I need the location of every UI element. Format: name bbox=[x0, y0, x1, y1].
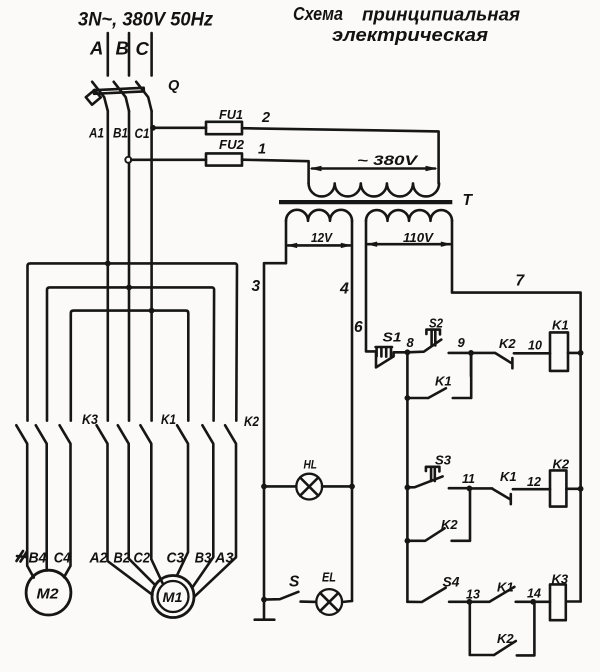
coil K1 bbox=[550, 332, 568, 371]
svg-text:7: 7 bbox=[516, 273, 526, 290]
thermal contact S1 bbox=[376, 331, 408, 368]
svg-text:4: 4 bbox=[339, 281, 349, 298]
lamp EL bbox=[301, 571, 343, 615]
contact K1 NC (row 2) bbox=[469, 469, 550, 504]
svg-text:S4: S4 bbox=[443, 575, 461, 590]
node bus A bbox=[105, 261, 111, 267]
switch Q blade pole C bbox=[136, 82, 151, 111]
wire node9 down bbox=[470, 353, 473, 376]
node bus B bbox=[126, 285, 132, 291]
svg-text:K2: K2 bbox=[553, 457, 570, 472]
transformer T primary winding bbox=[309, 183, 440, 196]
wire node 14 to coil K3 bbox=[533, 600, 550, 603]
svg-text:3: 3 bbox=[252, 278, 261, 295]
switch S4 bbox=[407, 575, 460, 603]
contact K2 NC (row 1) bbox=[471, 336, 550, 368]
svg-text:11: 11 bbox=[462, 472, 475, 486]
fuse FU2 bbox=[206, 153, 242, 165]
svg-text:B2: B2 bbox=[114, 550, 131, 567]
node 13 bbox=[467, 599, 473, 605]
wire to node 11 bbox=[449, 487, 470, 490]
svg-text:C1: C1 bbox=[135, 126, 150, 141]
svg-text:K2: K2 bbox=[244, 414, 259, 429]
svg-text:K2: K2 bbox=[499, 336, 516, 351]
motor M2 bbox=[26, 570, 71, 615]
pushbutton S2 bbox=[407, 317, 443, 353]
svg-text:FU1: FU1 bbox=[219, 107, 243, 122]
svg-text:K1: K1 bbox=[435, 374, 452, 389]
svg-text:A1: A1 bbox=[88, 126, 104, 141]
contact K2 holding (row 3) bbox=[470, 602, 535, 656]
svg-text:A3: A3 bbox=[214, 550, 234, 567]
svg-text:C4: C4 bbox=[54, 550, 72, 567]
wire coil K1 to bus bbox=[568, 352, 581, 355]
svg-text:M1: M1 bbox=[163, 589, 183, 605]
svg-text:S: S bbox=[289, 574, 300, 591]
node junction C1-FU1 bbox=[150, 125, 156, 131]
contact K1 holding (row 1) bbox=[407, 353, 471, 398]
wire branch 8 down bbox=[406, 352, 409, 602]
switch Q blade pole B bbox=[114, 82, 129, 111]
wire 4 (12V right terminal down) bbox=[351, 221, 354, 601]
svg-text:9: 9 bbox=[458, 335, 466, 350]
bus phase A (outer loop) bbox=[28, 263, 238, 420]
bus phase C (inner loop) bbox=[71, 311, 189, 421]
svg-text:принципиальная: принципиальная bbox=[362, 5, 520, 25]
contactor contact K2-2 bbox=[193, 425, 214, 587]
wire to node 9 bbox=[449, 352, 471, 355]
scribble mark bbox=[17, 551, 28, 562]
svg-text:12V: 12V bbox=[311, 231, 334, 245]
node 8-branch at holding row bbox=[405, 395, 411, 401]
svg-text:2: 2 bbox=[261, 110, 270, 126]
pushbutton S3 bbox=[407, 453, 451, 488]
svg-text:K1: K1 bbox=[497, 580, 514, 595]
dimension arrow ~380V bbox=[310, 153, 438, 171]
svg-text:S1: S1 bbox=[383, 331, 402, 345]
node 9 bbox=[468, 350, 474, 356]
contactor contact K3-2 bbox=[36, 425, 47, 570]
node 14 bbox=[530, 599, 536, 605]
svg-text:14: 14 bbox=[527, 587, 541, 601]
wire coil K2 to bus bbox=[566, 487, 580, 490]
bus phase B (middle loop) bbox=[47, 287, 214, 420]
svg-text:110V: 110V bbox=[403, 231, 435, 245]
svg-text:C2: C2 bbox=[134, 550, 151, 567]
wire phase B top stub bbox=[128, 33, 131, 76]
wire phase C vertical bbox=[150, 111, 153, 421]
switch S bbox=[264, 592, 298, 600]
svg-text:10: 10 bbox=[528, 339, 542, 353]
transformer 110V secondary winding bbox=[366, 210, 452, 221]
wire phase C top stub bbox=[150, 33, 153, 76]
node 8-branch at holding2 bbox=[405, 538, 411, 544]
svg-text:электрическая: электрическая bbox=[332, 25, 488, 45]
svg-text:1: 1 bbox=[258, 142, 266, 158]
node bus C bbox=[149, 308, 155, 314]
contact K1 NO (row 3) bbox=[469, 580, 533, 602]
motor M1 bbox=[152, 576, 194, 618]
svg-text:13: 13 bbox=[466, 588, 480, 602]
coil K2 bbox=[550, 470, 566, 506]
ground bbox=[255, 618, 275, 621]
contactor contact K3-3 bbox=[60, 425, 71, 577]
contact K2 holding (row 2) bbox=[407, 488, 470, 540]
fuse FU1 bbox=[206, 122, 242, 134]
svg-text:M2: M2 bbox=[37, 586, 60, 603]
svg-text:Схема: Схема bbox=[293, 4, 343, 24]
svg-text:A: A bbox=[89, 38, 103, 59]
wire coil K3 to bus bbox=[566, 600, 581, 603]
svg-text:~ 380V: ~ 380V bbox=[357, 153, 418, 168]
node on wire 4 bbox=[349, 484, 355, 490]
svg-text:T: T bbox=[463, 192, 474, 209]
svg-text:C3: C3 bbox=[167, 550, 185, 567]
svg-text:B: B bbox=[116, 38, 129, 59]
contactor contact K1-2 bbox=[118, 425, 156, 585]
wire to node 13 bbox=[449, 600, 469, 603]
svg-text:S2: S2 bbox=[429, 317, 443, 331]
dimension arrow 110V bbox=[366, 231, 452, 247]
wire 7 (110V right terminal to right bus) bbox=[452, 221, 581, 602]
node at S3 row bbox=[405, 485, 411, 491]
wire 1 bbox=[242, 160, 309, 184]
lamp HL bbox=[296, 458, 322, 500]
wire 3 (12V left terminal down to ground) bbox=[264, 221, 286, 619]
svg-text:HL: HL bbox=[304, 458, 318, 472]
svg-text:B1: B1 bbox=[113, 126, 128, 141]
switch Q blade pole A bbox=[92, 82, 108, 111]
wire 2 bbox=[242, 128, 439, 183]
wire to FU1 bbox=[153, 127, 206, 130]
node bus-K1 bbox=[578, 350, 584, 356]
svg-text:3N~, 380V 50Hz: 3N~, 380V 50Hz bbox=[78, 10, 213, 31]
contactor contact K1-1 bbox=[97, 425, 153, 595]
wire HL to wire4 bbox=[322, 485, 352, 488]
transformer 12V secondary winding bbox=[286, 210, 352, 221]
svg-text:EL: EL bbox=[322, 571, 336, 585]
svg-text:K3: K3 bbox=[552, 572, 569, 587]
svg-text:K1: K1 bbox=[500, 469, 517, 484]
node 8 bbox=[405, 349, 411, 355]
contactor contact K2-1 bbox=[177, 425, 188, 575]
node junction B1-FU2 bbox=[125, 157, 131, 163]
wire EL to wire 4 bbox=[342, 601, 352, 602]
coil K3 bbox=[550, 584, 566, 620]
svg-text:S3: S3 bbox=[435, 453, 452, 468]
contactor contact K1-3 bbox=[140, 425, 162, 583]
switch Q tie bar bbox=[94, 88, 144, 94]
wire to HL bbox=[264, 485, 296, 488]
wire phase A top stub bbox=[107, 33, 110, 76]
contactor contact K3-1 bbox=[16, 425, 33, 577]
svg-text:Q: Q bbox=[168, 78, 180, 94]
lamp HL row: node on wire 3 bbox=[261, 484, 267, 490]
contactor contact K2-3 bbox=[195, 425, 236, 596]
svg-text:A2: A2 bbox=[89, 550, 109, 567]
svg-text:K1: K1 bbox=[161, 412, 176, 427]
wire phase B vertical bbox=[128, 111, 131, 421]
switch S node bbox=[261, 597, 267, 603]
switch Q handle bbox=[86, 90, 101, 105]
transformer T core bbox=[279, 200, 452, 204]
node bus-K2 bbox=[578, 486, 584, 492]
svg-text:B3: B3 bbox=[195, 550, 212, 567]
svg-text:K2: K2 bbox=[497, 631, 514, 646]
svg-text:8: 8 bbox=[407, 335, 415, 350]
svg-text:K2: K2 bbox=[441, 517, 458, 532]
title: Схема принципиальная электрическая bbox=[293, 4, 520, 45]
node 11 bbox=[467, 486, 473, 492]
wire phase A vertical bbox=[107, 111, 110, 421]
svg-text:K1: K1 bbox=[552, 318, 569, 333]
svg-text:6: 6 bbox=[354, 319, 363, 336]
svg-text:C: C bbox=[136, 38, 150, 59]
svg-text:FU2: FU2 bbox=[219, 137, 245, 152]
wire to FU2 bbox=[131, 159, 206, 162]
wire 6 (110V left terminal down) bbox=[366, 221, 376, 352]
svg-text:B4: B4 bbox=[29, 550, 48, 567]
dimension arrow 12V bbox=[286, 231, 352, 248]
svg-text:12: 12 bbox=[527, 475, 541, 489]
